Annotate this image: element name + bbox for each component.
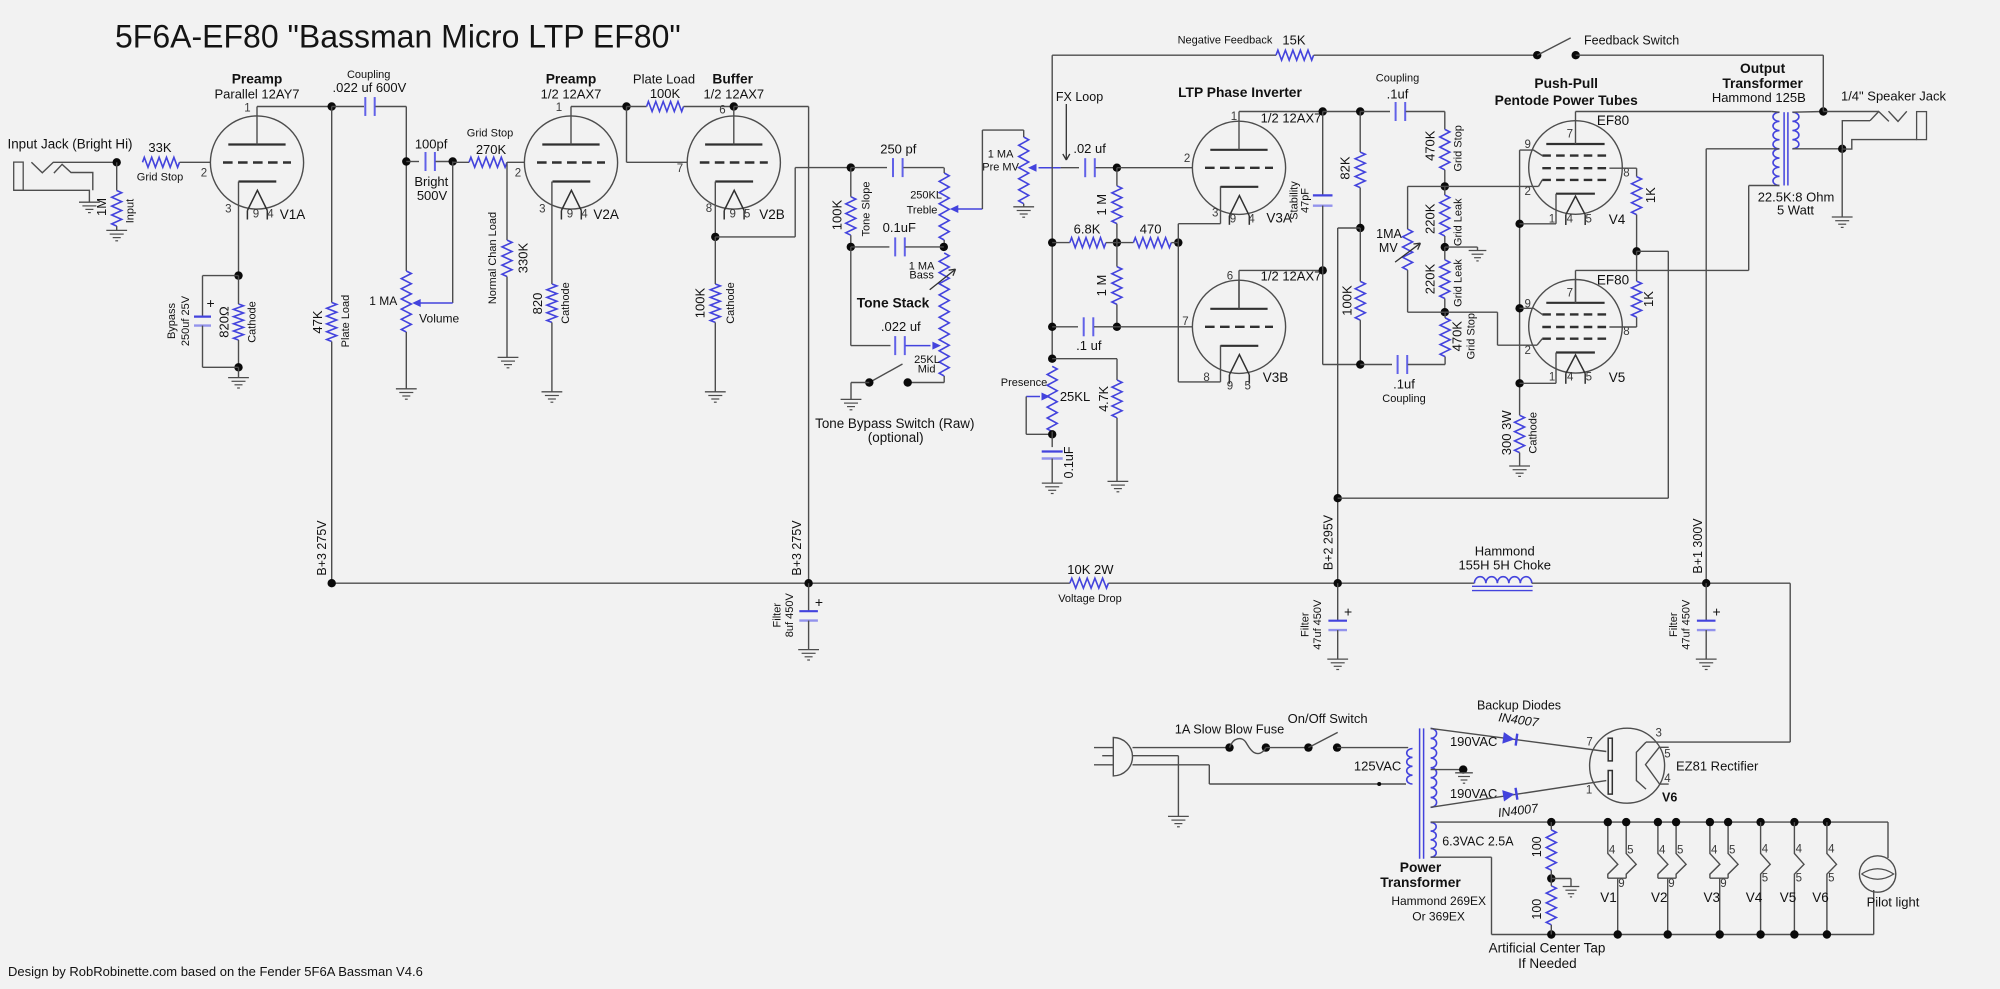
svg-text:25KL: 25KL xyxy=(1060,389,1090,404)
svg-text:Power: Power xyxy=(1400,860,1442,875)
svg-text:470K: 470K xyxy=(1450,321,1465,352)
svg-text:+: + xyxy=(1713,604,1721,620)
svg-text:+: + xyxy=(1344,604,1352,620)
svg-text:470K: 470K xyxy=(1423,130,1438,161)
svg-text:V5: V5 xyxy=(1609,370,1626,385)
svg-text:1: 1 xyxy=(556,102,562,114)
svg-text:1: 1 xyxy=(244,103,250,115)
svg-text:V2A: V2A xyxy=(593,207,619,222)
svg-text:250KL: 250KL xyxy=(910,190,942,202)
svg-text:7: 7 xyxy=(677,163,683,175)
svg-text:Preamp: Preamp xyxy=(546,71,597,86)
svg-text:100K: 100K xyxy=(830,199,845,230)
svg-text:2: 2 xyxy=(1524,186,1530,198)
svg-text:4.7K: 4.7K xyxy=(1097,385,1111,411)
svg-text:5: 5 xyxy=(1586,371,1592,383)
svg-text:5: 5 xyxy=(1627,844,1633,856)
svg-text:100: 100 xyxy=(1530,899,1544,920)
svg-text:6.8K: 6.8K xyxy=(1074,222,1101,237)
svg-text:Pilot light: Pilot light xyxy=(1867,895,1920,910)
svg-text:8: 8 xyxy=(1623,167,1629,179)
svg-text:2: 2 xyxy=(201,168,207,180)
svg-text:5: 5 xyxy=(1729,844,1735,856)
svg-text:4: 4 xyxy=(1609,844,1616,856)
svg-text:100pf: 100pf xyxy=(415,137,448,152)
svg-text:4: 4 xyxy=(1762,843,1769,855)
svg-text:Backup Diodes: Backup Diodes xyxy=(1477,698,1561,712)
svg-text:Cathode: Cathode xyxy=(725,282,737,324)
svg-text:B+1 300V: B+1 300V xyxy=(1691,518,1705,574)
svg-text:1: 1 xyxy=(1549,371,1555,383)
svg-text:47pF: 47pF xyxy=(1300,188,1312,213)
svg-text:3: 3 xyxy=(1655,728,1661,740)
svg-text:Treble: Treble xyxy=(907,204,938,216)
svg-text:Cathode: Cathode xyxy=(247,301,259,343)
svg-text:Tone Slope: Tone Slope xyxy=(861,181,873,236)
svg-text:1 MA: 1 MA xyxy=(988,149,1014,161)
svg-text:Bright: Bright xyxy=(414,174,448,189)
svg-text:1/2 12AX7: 1/2 12AX7 xyxy=(1261,110,1322,125)
svg-text:5: 5 xyxy=(1244,381,1250,393)
svg-text:4: 4 xyxy=(1567,371,1574,383)
svg-text:V2B: V2B xyxy=(759,207,785,222)
svg-text:9: 9 xyxy=(1668,878,1674,890)
svg-text:V1A: V1A xyxy=(280,207,306,222)
svg-text:Hammond 125B: Hammond 125B xyxy=(1712,90,1806,105)
svg-text:0.1uF: 0.1uF xyxy=(883,220,916,235)
svg-text:Bass: Bass xyxy=(909,270,934,282)
svg-text:Output: Output xyxy=(1740,61,1786,76)
svg-text:7: 7 xyxy=(1586,736,1592,748)
svg-text:47uf 450V: 47uf 450V xyxy=(1312,599,1324,650)
svg-text:Grid Stop: Grid Stop xyxy=(137,172,183,184)
svg-text:Input: Input xyxy=(125,199,137,223)
svg-text:Hammond 269EX: Hammond 269EX xyxy=(1391,894,1486,908)
svg-text:Volume: Volume xyxy=(419,312,459,326)
svg-text:100K: 100K xyxy=(1339,285,1354,316)
svg-text:5: 5 xyxy=(1796,873,1802,885)
svg-text:1 M: 1 M xyxy=(1094,275,1109,297)
svg-text:EF80: EF80 xyxy=(1597,113,1629,128)
svg-text:1 M: 1 M xyxy=(1094,194,1109,216)
svg-text:Voltage Drop: Voltage Drop xyxy=(1058,593,1122,605)
svg-text:Transformer: Transformer xyxy=(1722,76,1803,91)
svg-text:Cathode: Cathode xyxy=(560,282,572,324)
svg-text:7: 7 xyxy=(1567,129,1573,141)
svg-text:Feedback Switch: Feedback Switch xyxy=(1584,34,1679,48)
svg-text:.1uf: .1uf xyxy=(1393,376,1415,391)
svg-text:5: 5 xyxy=(1677,844,1683,856)
svg-text:Grid Stop: Grid Stop xyxy=(1466,313,1478,359)
svg-text:82K: 82K xyxy=(1338,156,1353,179)
svg-text:Pentode Power Tubes: Pentode Power Tubes xyxy=(1495,93,1638,108)
svg-text:Design by RobRobinette.com bas: Design by RobRobinette.com based on the … xyxy=(8,964,423,979)
svg-text:4: 4 xyxy=(1664,773,1671,785)
svg-text:Grid Leak: Grid Leak xyxy=(1453,259,1465,307)
svg-text:Bypass: Bypass xyxy=(166,302,178,339)
svg-text:1K: 1K xyxy=(1643,187,1658,203)
svg-text:5 Watt: 5 Watt xyxy=(1777,203,1814,218)
svg-text:Normal Chan Load: Normal Chan Load xyxy=(487,212,499,304)
svg-text:15K: 15K xyxy=(1282,33,1305,48)
svg-text:Input Jack (Bright Hi): Input Jack (Bright Hi) xyxy=(8,137,133,152)
svg-text:9: 9 xyxy=(1524,139,1530,151)
svg-text:330K: 330K xyxy=(516,242,531,273)
svg-text:Hammond: Hammond xyxy=(1475,544,1535,559)
svg-text:4: 4 xyxy=(267,209,274,221)
svg-text:9: 9 xyxy=(729,209,735,221)
svg-text:4: 4 xyxy=(1567,213,1574,225)
svg-text:V6: V6 xyxy=(1812,890,1829,905)
svg-text:270K: 270K xyxy=(476,142,507,157)
svg-text:9: 9 xyxy=(1230,213,1236,225)
svg-text:Filter: Filter xyxy=(1300,612,1312,637)
svg-text:1M: 1M xyxy=(94,198,109,216)
svg-text:.02 uf: .02 uf xyxy=(1073,141,1106,156)
svg-text:4: 4 xyxy=(1828,843,1835,855)
svg-text:V2: V2 xyxy=(1651,890,1668,905)
svg-text:Mid: Mid xyxy=(918,364,936,376)
svg-text:Parallel 12AY7: Parallel 12AY7 xyxy=(214,87,299,102)
svg-text:Grid Stop: Grid Stop xyxy=(1453,125,1465,171)
svg-text:6: 6 xyxy=(1227,271,1233,283)
svg-text:Grid Stop: Grid Stop xyxy=(467,128,513,140)
svg-text:5: 5 xyxy=(1664,748,1670,760)
svg-text:500V: 500V xyxy=(417,188,448,203)
svg-text:V3: V3 xyxy=(1704,890,1721,905)
svg-text:Tone Bypass Switch (Raw): Tone Bypass Switch (Raw) xyxy=(815,416,974,431)
svg-text:2: 2 xyxy=(515,168,521,180)
svg-text:250uf 25V: 250uf 25V xyxy=(180,295,192,346)
svg-text:1/2 12AX7: 1/2 12AX7 xyxy=(703,87,764,102)
svg-text:V1: V1 xyxy=(1600,890,1617,905)
svg-text:1A Slow Blow Fuse: 1A Slow Blow Fuse xyxy=(1175,722,1285,737)
svg-text:Push-Pull: Push-Pull xyxy=(1534,76,1598,91)
svg-text:Grid Leak: Grid Leak xyxy=(1453,198,1465,246)
svg-text:47uf 450V: 47uf 450V xyxy=(1681,599,1693,650)
svg-text:Coupling: Coupling xyxy=(347,69,390,81)
svg-text:8: 8 xyxy=(706,203,712,215)
svg-text:V5: V5 xyxy=(1780,890,1797,905)
svg-text:470: 470 xyxy=(1140,221,1162,236)
svg-text:(optional): (optional) xyxy=(868,430,924,445)
svg-text:1: 1 xyxy=(1231,111,1237,123)
svg-text:EZ81 Rectifier: EZ81 Rectifier xyxy=(1676,759,1759,774)
svg-text:Buffer: Buffer xyxy=(712,72,753,87)
svg-text:100K: 100K xyxy=(650,86,681,101)
svg-text:Preamp: Preamp xyxy=(232,71,283,86)
svg-text:1/2 12AX7: 1/2 12AX7 xyxy=(541,87,602,102)
svg-text:+: + xyxy=(815,594,823,610)
svg-text:1K: 1K xyxy=(1641,291,1656,307)
svg-text:Plate Load: Plate Load xyxy=(633,72,695,87)
svg-text:220K: 220K xyxy=(1423,203,1438,234)
svg-text:Filter: Filter xyxy=(1668,612,1680,637)
svg-text:5: 5 xyxy=(1585,213,1591,225)
svg-text:LTP Phase Inverter: LTP Phase Inverter xyxy=(1178,85,1302,100)
svg-text:Negative Feedback: Negative Feedback xyxy=(1178,35,1273,47)
svg-text:3: 3 xyxy=(225,204,231,216)
svg-text:1MA: 1MA xyxy=(1376,227,1402,241)
svg-text:33K: 33K xyxy=(148,140,171,155)
svg-text:5F6A-EF80 "Bassman Micro LTP E: 5F6A-EF80 "Bassman Micro LTP EF80" xyxy=(115,19,681,55)
svg-text:.1 uf: .1 uf xyxy=(1076,338,1102,353)
svg-text:V6: V6 xyxy=(1662,791,1677,805)
svg-text:Artificial Center Tap: Artificial Center Tap xyxy=(1489,941,1606,956)
svg-text:9: 9 xyxy=(1720,878,1726,890)
svg-text:2: 2 xyxy=(1184,153,1190,165)
svg-text:.022 uf: .022 uf xyxy=(881,319,921,334)
svg-text:0.1uF: 0.1uF xyxy=(1062,446,1076,478)
svg-text:Presence: Presence xyxy=(1001,377,1047,389)
svg-text:8uf 450V: 8uf 450V xyxy=(784,593,796,638)
svg-text:820Ω: 820Ω xyxy=(217,306,232,338)
svg-text:5: 5 xyxy=(1828,873,1834,885)
svg-text:If Needed: If Needed xyxy=(1518,956,1577,971)
svg-text:1 MA: 1 MA xyxy=(369,294,397,308)
svg-text:4: 4 xyxy=(1248,213,1255,225)
svg-text:100: 100 xyxy=(1530,836,1544,857)
svg-text:9: 9 xyxy=(253,209,259,221)
svg-text:Coupling: Coupling xyxy=(1376,72,1419,84)
svg-text:.1uf: .1uf xyxy=(1387,87,1409,102)
svg-text:7: 7 xyxy=(1182,316,1188,328)
svg-text:.022 uf 600V: .022 uf 600V xyxy=(333,80,407,95)
svg-text:5: 5 xyxy=(744,209,750,221)
svg-text:4: 4 xyxy=(1659,844,1666,856)
svg-text:7: 7 xyxy=(1567,287,1573,299)
svg-text:Tone Stack: Tone Stack xyxy=(857,296,930,311)
svg-text:3: 3 xyxy=(1212,207,1218,219)
svg-text:9: 9 xyxy=(1227,381,1233,393)
svg-text:B+3 275V: B+3 275V xyxy=(790,520,804,576)
svg-text:9: 9 xyxy=(1618,878,1624,890)
svg-text:Coupling: Coupling xyxy=(1382,393,1425,405)
svg-text:V4: V4 xyxy=(1746,890,1763,905)
svg-text:1/4" Speaker Jack: 1/4" Speaker Jack xyxy=(1841,89,1947,104)
svg-text:FX Loop: FX Loop xyxy=(1056,90,1103,104)
svg-text:1: 1 xyxy=(1586,785,1592,797)
svg-text:Or 369EX: Or 369EX xyxy=(1412,910,1465,924)
svg-text:B+2 295V: B+2 295V xyxy=(1321,514,1335,570)
svg-text:Plate Load: Plate Load xyxy=(340,295,352,348)
svg-text:+: + xyxy=(207,295,215,311)
svg-text:3: 3 xyxy=(539,204,545,216)
svg-text:9: 9 xyxy=(567,209,573,221)
svg-text:B+3 275V: B+3 275V xyxy=(315,520,329,576)
svg-text:4: 4 xyxy=(1711,844,1718,856)
svg-text:250 pf: 250 pf xyxy=(880,141,917,156)
svg-text:Pre MV: Pre MV xyxy=(982,161,1019,173)
svg-text:300 3W: 300 3W xyxy=(1499,410,1514,456)
svg-text:On/Off Switch: On/Off Switch xyxy=(1288,711,1368,726)
svg-text:10K 2W: 10K 2W xyxy=(1067,562,1114,577)
svg-text:125VAC: 125VAC xyxy=(1354,758,1401,773)
svg-text:Filter: Filter xyxy=(771,603,783,628)
svg-text:2: 2 xyxy=(1524,345,1530,357)
svg-text:V3B: V3B xyxy=(1263,370,1289,385)
svg-text:V4: V4 xyxy=(1609,212,1626,227)
svg-text:EF80: EF80 xyxy=(1597,272,1629,287)
svg-text:6: 6 xyxy=(719,105,725,117)
svg-text:Cathode: Cathode xyxy=(1528,412,1540,454)
svg-text:6.3VAC 2.5A: 6.3VAC 2.5A xyxy=(1442,835,1514,849)
svg-text:100K: 100K xyxy=(693,287,708,318)
svg-text:5: 5 xyxy=(1762,873,1768,885)
svg-text:4: 4 xyxy=(581,209,588,221)
svg-text:MV: MV xyxy=(1379,241,1398,255)
svg-text:47K: 47K xyxy=(310,310,325,333)
svg-text:Transformer: Transformer xyxy=(1380,875,1461,890)
svg-text:155H 5H Choke: 155H 5H Choke xyxy=(1458,557,1551,572)
svg-text:4: 4 xyxy=(1796,843,1803,855)
svg-text:220K: 220K xyxy=(1423,263,1438,294)
svg-text:820: 820 xyxy=(530,293,545,315)
